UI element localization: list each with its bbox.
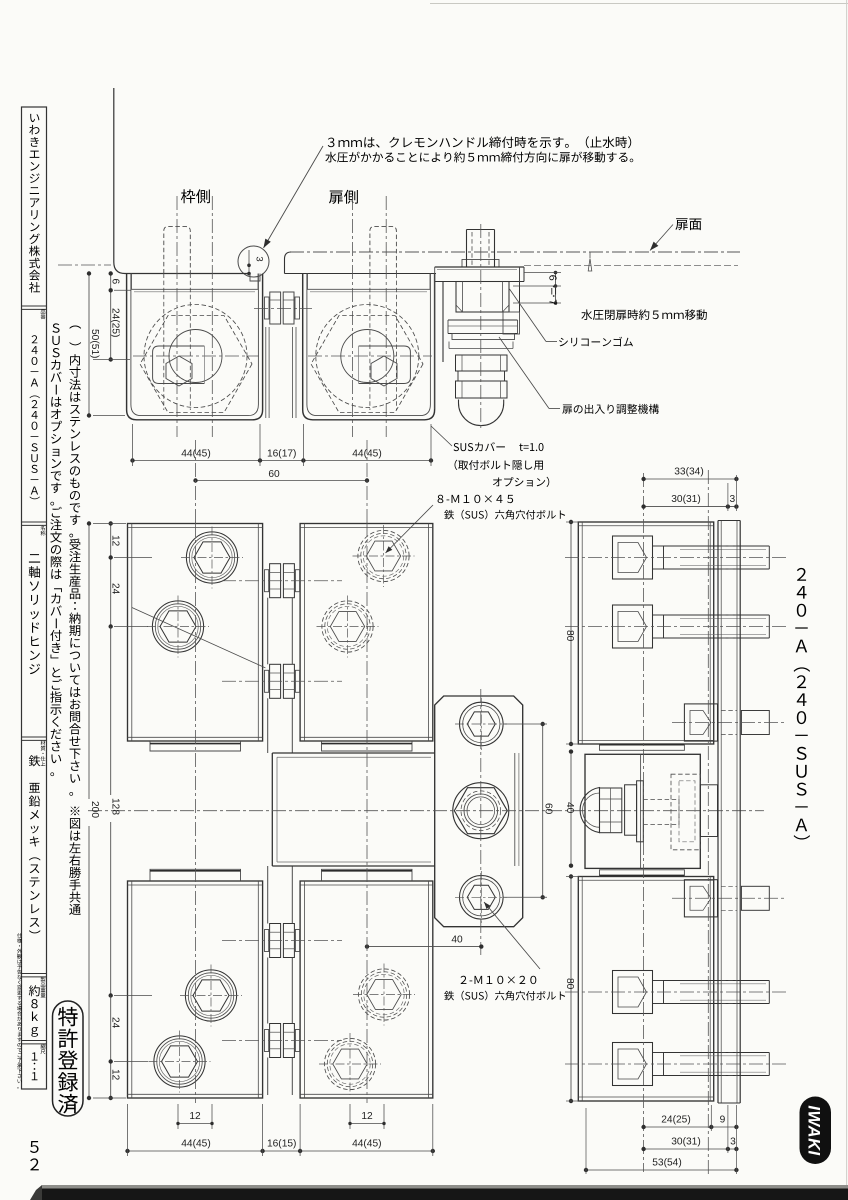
svg-text:24(25): 24(25) <box>110 308 121 337</box>
svg-text:40: 40 <box>564 802 575 814</box>
component: side bracket to door plate <box>700 785 717 837</box>
component: center pivot block (front) <box>435 696 523 927</box>
svg-text:12: 12 <box>189 1111 201 1122</box>
node: page number 52 <box>30 1141 39 1170</box>
dimension: 12 bolt pitch bottom pair <box>178 1123 212 1125</box>
component: bolt holes through plate (hidden) <box>721 545 737 547</box>
component: side view upper block <box>578 522 713 744</box>
node: black scan band bottom edge <box>42 1189 848 1200</box>
node: annotation 3mm clamp note line1 <box>328 136 631 148</box>
svg-text:128: 128 <box>110 798 121 815</box>
component: knuckle nuts between covers (top view) <box>265 297 270 319</box>
wire: shifted door face line (5mm move) <box>524 265 738 267</box>
component: right hinge cup hidden circle <box>316 305 419 408</box>
component: hinge pin nut cluster 2 <box>265 670 269 692</box>
wire: leader to socket bolt <box>386 505 434 553</box>
component: left bolt head hexagon (hidden) <box>140 316 252 413</box>
wire: hinge plate top edges under covers <box>131 288 259 290</box>
svg-text:12: 12 <box>361 1111 373 1122</box>
node: tiny disclaimer left of bar <box>17 933 22 1088</box>
component: socket bolt upper-left plate row1 <box>186 532 237 583</box>
wire: faint scan line right edge <box>846 0 848 1190</box>
component: door mounting plate (side) <box>717 521 719 1104</box>
component: right bolt head hexagon (hidden) <box>311 316 423 413</box>
svg-text:16(17): 16(17) <box>267 449 296 460</box>
svg-text:33(34): 33(34) <box>674 467 703 478</box>
component: left socket hexagon <box>166 356 192 386</box>
component: pivot axis hex nut <box>453 783 509 839</box>
component: socket bolt lower-left plate row1 <box>185 970 236 1021</box>
dimension: 50(51) left of plan <box>88 274 90 416</box>
label: frame side 枠側 <box>181 189 210 203</box>
node: cover step notch at 3mm gap <box>250 274 260 282</box>
dimension: 30(31) 3 bottom <box>644 1148 737 1150</box>
label: door in-out adjusting mechanism <box>549 408 560 410</box>
svg-text:24: 24 <box>110 1017 121 1029</box>
component: pivot block top socket bolt <box>460 702 504 746</box>
wire: centerlines of tabs and bolt holes (top view) <box>176 196 178 437</box>
svg-text:24: 24 <box>110 583 121 595</box>
node: material box <box>29 755 41 933</box>
component: side view lower block <box>578 877 713 1102</box>
node: patent badge 特許登録済 <box>53 1001 84 1116</box>
node: tiny box headers <box>41 309 46 319</box>
wire: main horizontal centerline <box>88 810 764 812</box>
wire: leader to pivot bottom bolt <box>484 902 540 969</box>
label: 2-M10x20 bolts <box>461 976 537 984</box>
svg-text:200: 200 <box>89 801 100 818</box>
wire: knuckle axis (top view) <box>254 308 312 310</box>
svg-text:40: 40 <box>451 935 463 946</box>
component: left square pocket <box>153 346 205 384</box>
svg-text:60: 60 <box>542 803 553 815</box>
component: socket bolt lower-left plate row2 <box>154 1036 205 1087</box>
node: note column SUS cover option <box>50 323 62 776</box>
dimension: 24(25) 9 bottom <box>644 1126 737 1128</box>
component: adjuster top plate <box>435 266 524 268</box>
component: right socket hexagon <box>371 356 397 386</box>
svg-text:6: 6 <box>110 279 121 285</box>
label: 8-M10x45 hex socket bolts <box>438 495 514 503</box>
wire: adjuster bracket edge on cover <box>434 267 436 409</box>
node: model number vertical 240-A(240-SUS-A) <box>794 568 810 840</box>
label: door side 扉側 <box>329 190 358 204</box>
svg-text:IWAKI: IWAKI <box>805 1105 823 1155</box>
dimension: 6 and 24(25) left of plan <box>110 274 112 360</box>
component: hinge pin nut cluster 4 <box>265 1030 269 1052</box>
component: adjuster body (top view) <box>442 282 444 363</box>
wire: horizontal centerlines through cups <box>133 355 259 357</box>
component: adjuster hex head below plate <box>456 282 509 313</box>
node: annotation line2 water pressure <box>325 152 633 163</box>
svg-text:12: 12 <box>110 535 121 547</box>
wire: leader to door face <box>650 225 673 251</box>
component: leaf end lines inside pivot block <box>514 753 516 866</box>
dimension: 53(54) overall bottom <box>586 1169 736 1171</box>
component: adjuster lock nut stack <box>456 355 508 371</box>
component: silicone rubber pad <box>448 319 518 321</box>
dimension: 60 pivot bolt spacing <box>542 724 544 897</box>
svg-text:30(31): 30(31) <box>671 494 700 505</box>
component: lower door-side plate <box>300 881 433 1098</box>
svg-text:50(51): 50(51) <box>89 329 100 358</box>
wire: hinge leaf edges in cover gap (top view) <box>265 327 267 418</box>
wire: leader from note to circled 3 <box>264 146 324 248</box>
wire: front view plate centerlines <box>195 523 197 1103</box>
component: right SUS cover (top view) <box>303 274 435 420</box>
node: model number box <box>30 335 40 499</box>
component: side pivot housing <box>585 754 700 868</box>
wire: leader across plate to knuckle <box>132 608 266 668</box>
label: water pressure door move 5mm <box>581 309 706 320</box>
component: upper frame-side plate <box>128 524 263 742</box>
component: row3 side-view bolt <box>613 971 653 1014</box>
node: title block outer frame <box>22 107 47 1089</box>
component: hinge pin center strip segments <box>267 598 269 665</box>
wire: title block separators <box>22 305 47 307</box>
node: product name box <box>29 554 40 674</box>
svg-text:80: 80 <box>564 978 575 990</box>
wire: plate side stubs under cover tops <box>131 274 133 290</box>
dimension: 44(45) 16(15) 44(45) bottom <box>128 1150 433 1152</box>
node: 5mm move arrow marker <box>588 259 592 272</box>
component: hinge pin nut cluster 3 <box>265 930 269 952</box>
dimension: 24 and 12 lower left <box>110 996 112 1099</box>
component: adjuster dome cap <box>459 400 504 426</box>
component: socket bolt upper-right plate row2 (hidden) <box>322 601 373 652</box>
wire: bottom extension lines <box>710 1105 712 1131</box>
svg-text:44(45): 44(45) <box>352 1139 381 1150</box>
component: side pivot screws through plate <box>684 704 717 741</box>
svg-text:16(15): 16(15) <box>267 1139 296 1150</box>
component: pivot block bottom socket bolt <box>460 876 504 920</box>
wire: pivot block vertical centerline <box>480 689 482 955</box>
dimension: 60 bolt pitch below plan <box>196 480 368 482</box>
component: left mounting tab (hidden) <box>164 227 191 274</box>
dimension: 128 centers <box>110 627 112 796</box>
component: stud collar <box>462 260 499 268</box>
component: right square pocket <box>359 346 411 384</box>
svg-text:3: 3 <box>729 494 735 505</box>
dimension: 80 40 80 left of side view <box>570 522 572 744</box>
component: middle hinge leaf edge band <box>272 752 434 754</box>
dimension: 44(45) 16(17) 44(45) below plan <box>133 460 432 462</box>
component: side step strips <box>600 744 685 750</box>
component: row1 side-view bolt <box>613 536 653 579</box>
component: right mounting tab (hidden) <box>370 227 397 274</box>
component: socket bolt lower-right plate row2 (hidden) <box>324 1038 375 1089</box>
wire: side view centerlines vertical <box>643 473 645 1172</box>
svg-text:44(45): 44(45) <box>181 449 210 460</box>
component: row2 side-view bolt <box>613 605 653 648</box>
wire: door mounting face line <box>285 273 437 275</box>
wire: faint scan line top edge <box>430 3 848 5</box>
svg-text:3: 3 <box>254 256 265 261</box>
node: weight box <box>29 985 40 1037</box>
label: door surface 扉面 <box>675 218 701 230</box>
wire: adjuster vertical centerline <box>480 224 482 430</box>
node: balloon circle with 3 dimension <box>238 246 269 277</box>
svg-text:30(31): 30(31) <box>671 1137 700 1148</box>
dimension: 200 overall <box>88 524 90 800</box>
component: adjuster screw stack (side) <box>580 788 599 833</box>
node: frame wall profile <box>114 88 249 274</box>
component: adjuster stud bolt upward <box>466 230 468 268</box>
component: hinge pin nut cluster 1 <box>265 570 269 592</box>
component: step recess strips between plates and band <box>150 741 241 751</box>
node: door edge corner <box>285 252 292 274</box>
node: scale box <box>32 1052 38 1080</box>
label: SUS cover t=1.0 <box>454 442 505 451</box>
component: upper door-side plate <box>300 524 433 742</box>
svg-text:53(54): 53(54) <box>652 1158 681 1169</box>
component: left SUS cover (top view) <box>127 274 263 420</box>
svg-text:80: 80 <box>564 630 575 642</box>
component: socket bolt lower-right plate row1 (hidden) <box>358 969 409 1020</box>
dimension: 33(34) top <box>644 478 737 480</box>
svg-text:24(25): 24(25) <box>661 1115 690 1126</box>
wire: extension centerlines to front view <box>195 440 197 523</box>
dimension: 12 and 24 upper left <box>110 524 112 627</box>
node: company name box <box>29 114 40 293</box>
svg-text:60: 60 <box>268 469 280 480</box>
svg-text:3: 3 <box>730 1137 736 1148</box>
label: silicone rubber <box>546 341 557 343</box>
component: socket bolt upper-right plate row1 (hidden) <box>358 530 409 581</box>
svg-text:12: 12 <box>110 1069 121 1081</box>
wire: door face dash-dot line <box>290 251 740 253</box>
dimension: 6 and approx 7 at adjuster <box>555 273 557 304</box>
svg-text:44(45): 44(45) <box>181 1139 210 1150</box>
svg-text:9: 9 <box>720 1115 726 1126</box>
component: lower frame-side plate <box>128 881 263 1098</box>
dimension: 40 pivot offset <box>367 946 481 948</box>
wire: leader to SUS cover <box>431 426 452 446</box>
component: left hinge cup hidden circle <box>144 305 247 408</box>
component: socket bolt upper-left plate row2 <box>152 601 203 652</box>
component: row4 side-view bolt <box>613 1043 653 1086</box>
node: IWAKI logo <box>800 1097 832 1165</box>
dimension: 30(31) and 3 top <box>644 506 737 508</box>
node: note column inner dims stainless <box>69 326 81 796</box>
